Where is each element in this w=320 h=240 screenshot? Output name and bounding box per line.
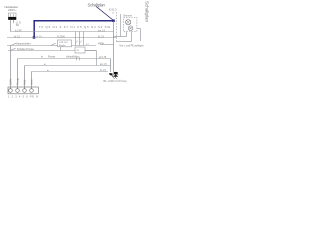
terminal stub 3 [24,87,26,89]
wire H6 y65.5 [25,65,111,67]
switch S1 on H3 [11,43,16,45]
svg-text:230V~: 230V~ [8,8,17,12]
svg-text:Brenner: Brenner [124,15,133,18]
vertical x120 [120,14,122,37]
svg-text:sw 1,5: sw 1,5 [100,64,107,66]
svg-text:230V: 230V [9,79,13,85]
wire box1 drop [60,47,62,51]
terminal riser 4 [31,72,33,88]
relay K2 contacts [75,32,77,46]
lamp lead left [126,32,128,37]
svg-text:1 2 3 4 5 6 PE N: 1 2 3 4 5 6 PE N [8,96,38,99]
terminal 2 [16,89,20,93]
terminal 4 [30,89,34,93]
switch S2 on H4 [11,48,16,50]
svg-text:Fühl: Fühl [23,79,27,85]
wire H8 [114,36,127,38]
node arrowhead at leader end [112,20,115,23]
svg-text:Pumpe: Pumpe [48,56,56,58]
pin L wire [10,20,12,32]
wire H1 y32 [10,31,113,33]
svg-text:T6 Q5 N1 S K7 N1 K5 Q5 N4 S4 S: T6 Q5 N1 S K7 N1 K5 Q5 N4 S4 SW [39,25,110,29]
junction dot on N wire [33,36,36,38]
lamp box dashed [124,18,137,32]
wire H2 y38 [7,37,117,39]
wire V coil drop [96,51,98,66]
svg-text:br: br [47,69,49,72]
svg-text:bl 1,5: bl 1,5 [98,35,105,38]
wire H3 right stub y44.3 [100,44,114,46]
lamp H1 circle-X [126,20,131,25]
wire from coil to node [85,50,97,52]
svg-text:PE: PE [16,24,20,27]
svg-text:Regler: Regler [59,44,66,47]
vertical x140 [140,29,142,42]
terminal stub 4 [31,87,33,89]
terminal stub 1 [10,87,12,89]
wire L navy horizontal [33,20,114,22]
pin N wire [13,20,15,23]
svg-text:N 230V: N 230V [57,35,65,38]
svg-text:Nur L und PE auflegen: Nur L und PE auflegen [120,44,145,47]
svg-text:Schaltplan: Schaltplan [144,1,149,23]
svg-text:Hauptschalter: Hauptschalter [16,43,31,46]
terminal strip X2 [8,87,38,94]
svg-text:Schalter Pumpe: Schalter Pumpe [17,48,35,51]
lamp H2 circle-X [128,26,133,31]
wire navy vertical drop [33,21,35,37]
plug X1 body [8,13,16,20]
terminal riser 2 [17,59,19,88]
terminal riser 3 [24,66,26,88]
wire H9 [117,41,132,43]
svg-text:STB 110°: STB 110° [59,42,68,44]
leader line to wire [96,7,113,21]
wire H5 y58 [18,58,111,60]
valve body solenoid [113,72,118,75]
svg-text:E 61.3: E 61.3 [109,8,117,12]
terminal 1 [9,89,13,93]
svg-text:Vorlauffühler: Vorlauffühler [66,55,79,58]
terminal riser 1 [10,46,12,88]
valve bowtie [114,76,118,80]
terminal stub 2 [17,87,19,89]
right vertical bus A x114 [113,21,115,72]
svg-text:Vent: Vent [30,79,34,85]
svg-text:6,3 AT: 6,3 AT [15,29,22,32]
lamp lead right [131,32,133,42]
svg-text:br: br [41,55,43,58]
contact K1 on H3 [51,43,56,45]
wire H7 y72 [32,71,109,73]
box STB [58,40,72,47]
svg-text:br 1,5: br 1,5 [100,69,107,72]
svg-text:bl 1,5: bl 1,5 [14,35,21,38]
right vertical bus B x110.5 [110,59,112,73]
valve actuator flag [109,73,113,75]
svg-text:sw 1,5: sw 1,5 [98,29,106,32]
svg-text:gr 0,75: gr 0,75 [99,56,107,59]
contact ticks on H5 [76,57,78,61]
terminal 3 [23,89,27,93]
box right tick [137,28,141,30]
svg-text:Pump: Pump [16,77,20,85]
relay K1 coil box [75,47,85,53]
wire H4 y50.5 [8,50,96,52]
svg-text:gn/ge: gn/ge [98,42,105,45]
svg-text:B1: LUDO-V GT-Ümp: B1: LUDO-V GT-Ümp [104,80,128,83]
dashed boundary x116.8 [116,12,118,42]
wire H3 y45.5 [7,45,96,47]
svg-text:bl 1,5: bl 1,5 [37,36,43,38]
